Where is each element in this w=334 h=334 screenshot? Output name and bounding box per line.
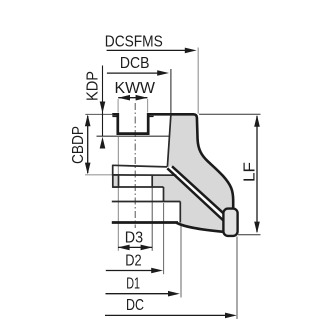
svg-text:DCSFMS: DCSFMS <box>105 34 163 51</box>
dimension DCB line with right arrow <box>107 72 160 74</box>
svg-text:D2: D2 <box>125 253 141 270</box>
node insert gash upper edge (diagonal) <box>172 166 224 213</box>
dimension CBDP line with outward arrows <box>87 116 89 173</box>
wire extension line keyway-bottom reference (KDP lower reference) <box>97 135 171 137</box>
dimension KDP leader and arrows <box>102 66 104 137</box>
wire step edge y=201.5 <box>112 201 181 203</box>
dimension D1 line with right arrow <box>106 293 172 295</box>
dimension D2 line with right arrow <box>106 270 155 272</box>
node step B right wall <box>163 187 165 202</box>
node centerline (vertical dash-dot axis of cutter) <box>134 103 136 228</box>
wire extension line counterbore bottom (CBDP lower, gray) <box>85 174 113 176</box>
node hub wall band (small gray ring section, left) <box>113 175 119 187</box>
svg-text:D1: D1 <box>126 276 140 293</box>
wire extension line DCSFMS (gray vertical at body OD) <box>197 48 199 114</box>
node keyway right lip step <box>148 115 153 117</box>
wire inner recess background edge (y=165) <box>112 165 167 167</box>
node step A right wall <box>151 175 153 187</box>
node hub top face with keyway (thick profile line) <box>112 114 171 133</box>
svg-text:KDP: KDP <box>85 71 102 101</box>
svg-text:LF: LF <box>241 162 258 182</box>
wire extension line KWW left (gray) <box>117 99 119 113</box>
dimension DCSFMS line with right arrow <box>107 49 187 51</box>
node bottom face sloped edge toward insert <box>177 223 224 232</box>
node body inner wall (DCB bore edge, slightly tapered) <box>167 114 171 167</box>
body lower mass (gray section below insert gash) <box>152 175 223 232</box>
node counterbore left wall (vertical connector) <box>112 165 114 176</box>
node body outer profile (thick) <box>171 114 233 209</box>
node insert (round-cornered indexable insert) <box>223 209 237 236</box>
dimension D3 line with outward arrows <box>118 246 152 248</box>
node keyway left lip step <box>112 115 117 117</box>
dimension LF line with outward arrows <box>256 116 258 232</box>
wire counterbore bottom edge (y=174.8 dark part) <box>113 174 177 176</box>
wire extension line DC (from insert right edge down) <box>236 237 238 320</box>
wire step edge y=187 <box>113 186 164 188</box>
wire extension line LF bottom (from insert tip to right) <box>238 234 261 236</box>
wire extension line D2 (gray) <box>163 203 165 274</box>
wire extension line D3 left <box>117 137 119 251</box>
node step C right wall <box>179 202 181 223</box>
svg-text:DCB: DCB <box>120 55 149 72</box>
wire bottom face background edge (thick) <box>112 221 178 224</box>
wire extension line KWW right (gray) <box>147 99 149 113</box>
svg-text:D3: D3 <box>125 230 143 247</box>
dimension DC line with right arrow <box>105 314 228 316</box>
svg-text:CBDP: CBDP <box>70 126 87 164</box>
body upper mass (gray section of cutter body) <box>167 114 233 213</box>
wire extension line top-left (hub face extended left) <box>85 113 112 115</box>
wire extension line D3 right <box>151 176 153 251</box>
node insert gash lower edge (diagonal) <box>167 168 223 220</box>
wire extension line DCB (vertical at body inner bore) <box>170 69 172 114</box>
svg-text:KWW: KWW <box>115 80 156 97</box>
dimension KWW line with outward arrows <box>118 97 147 99</box>
svg-text:DC: DC <box>126 297 144 314</box>
wire extension line D1 (gray) <box>180 224 182 298</box>
wire extension line LF top (from body corner to right) <box>199 113 261 115</box>
